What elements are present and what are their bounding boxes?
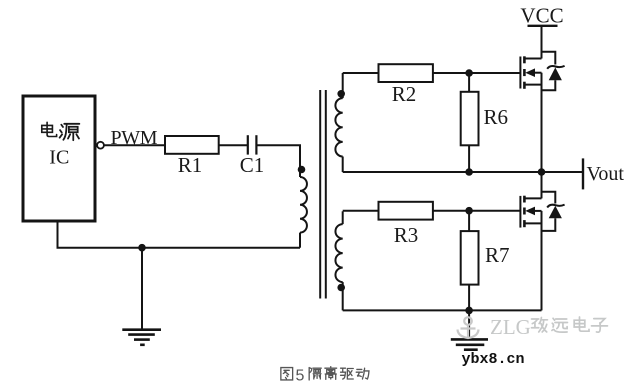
wire bottom rail to R3 — [343, 210, 379, 212]
svg-text:R7: R7 — [485, 243, 510, 267]
junction M1 source-rail — [538, 168, 546, 176]
resistor R7 — [461, 231, 479, 285]
svg-text:ZLG: ZLG — [490, 315, 531, 339]
svg-text:5: 5 — [296, 368, 305, 385]
wire R1 to C1 — [219, 144, 247, 146]
wire C1 to primary — [256, 145, 300, 169]
capacitor C1 — [248, 135, 257, 154]
Vout terminal bar — [582, 158, 584, 189]
wire R3 to gate M2 — [433, 210, 521, 212]
wire R6 to Vout rail — [468, 145, 470, 172]
wire top rail to R2 — [343, 72, 379, 74]
svg-text:R1: R1 — [178, 153, 203, 177]
transformer secondary winding (bottom) — [335, 211, 342, 310]
resistor R2 — [379, 64, 433, 82]
svg-text:R2: R2 — [392, 82, 417, 106]
caption 图5 隔离驱动 — [281, 367, 369, 380]
MOSFET Q2 (bottom) — [520, 172, 564, 310]
Q1 drain wire from VCC — [541, 26, 543, 59]
Q1 source vertical — [541, 73, 543, 172]
wire primary bottom to IC — [58, 221, 301, 248]
MOSFET Q1 (top) — [520, 26, 564, 172]
svg-text:R3: R3 — [394, 223, 419, 247]
wire PWM to R1 — [104, 144, 165, 146]
secondary bottom phase dot — [337, 284, 345, 292]
Q2 diode triangle — [549, 206, 562, 219]
junction R6-rail — [465, 168, 473, 176]
ground rail (bottom) — [343, 309, 542, 311]
Q1 drain stub — [524, 58, 541, 60]
Q1 channel segments — [523, 56, 526, 63]
ground (primary) — [122, 248, 161, 345]
IC box U1 (power IC) — [23, 96, 95, 221]
Q2 gate bar — [519, 196, 521, 228]
primary phase dot — [298, 166, 306, 174]
node PWM (open terminal circle) — [97, 142, 104, 149]
Q2 body diode branch — [542, 192, 556, 204]
watermark anchor glyph — [458, 317, 479, 338]
transformer core — [320, 90, 326, 299]
Q1 diode cathode bar — [547, 66, 564, 69]
Q1 source stub — [524, 84, 541, 86]
svg-text:IC: IC — [49, 147, 69, 169]
transformer secondary winding (top) — [335, 73, 342, 172]
svg-text:Vout: Vout — [587, 163, 625, 185]
resistor R3 — [379, 202, 433, 220]
Q1 body arrow — [534, 72, 542, 74]
label 电源 — [42, 122, 80, 140]
wire R2 to gate M1 — [433, 72, 521, 74]
secondary top phase dot — [337, 90, 345, 98]
svg-text:C1: C1 — [240, 153, 265, 177]
Q2 diode cathode bar — [547, 205, 564, 208]
Q2 source stub — [524, 222, 541, 224]
resistor R6 — [461, 92, 479, 146]
transformer primary winding — [300, 145, 307, 248]
wire R7 to ground rail — [468, 285, 470, 311]
Q2 drain wire from Vout rail — [541, 172, 543, 198]
Vout rail — [343, 171, 583, 173]
Q1 body diode branch — [542, 52, 556, 65]
junction primary-ground — [138, 244, 146, 252]
resistor R1 — [165, 136, 219, 154]
Q2 source vertical — [541, 211, 543, 311]
junction R3/R7 — [465, 207, 473, 215]
ground (secondary) — [451, 310, 488, 349]
svg-text:ybx8.cn: ybx8.cn — [462, 351, 525, 368]
Q1 diode triangle — [549, 68, 562, 81]
Q1 gate bar — [519, 57, 521, 89]
junction R2/R6 — [465, 69, 473, 77]
Q2 drain stub — [524, 197, 541, 199]
Q2 channel segments — [523, 196, 526, 203]
VCC supply bar — [528, 25, 558, 27]
Q2 body arrow — [534, 210, 542, 212]
svg-text:R6: R6 — [484, 105, 509, 129]
wire junction to R6 — [468, 73, 470, 92]
junction R7-ground rail — [465, 307, 473, 315]
wire junction to R7 — [468, 211, 470, 231]
svg-text:VCC: VCC — [520, 4, 563, 28]
